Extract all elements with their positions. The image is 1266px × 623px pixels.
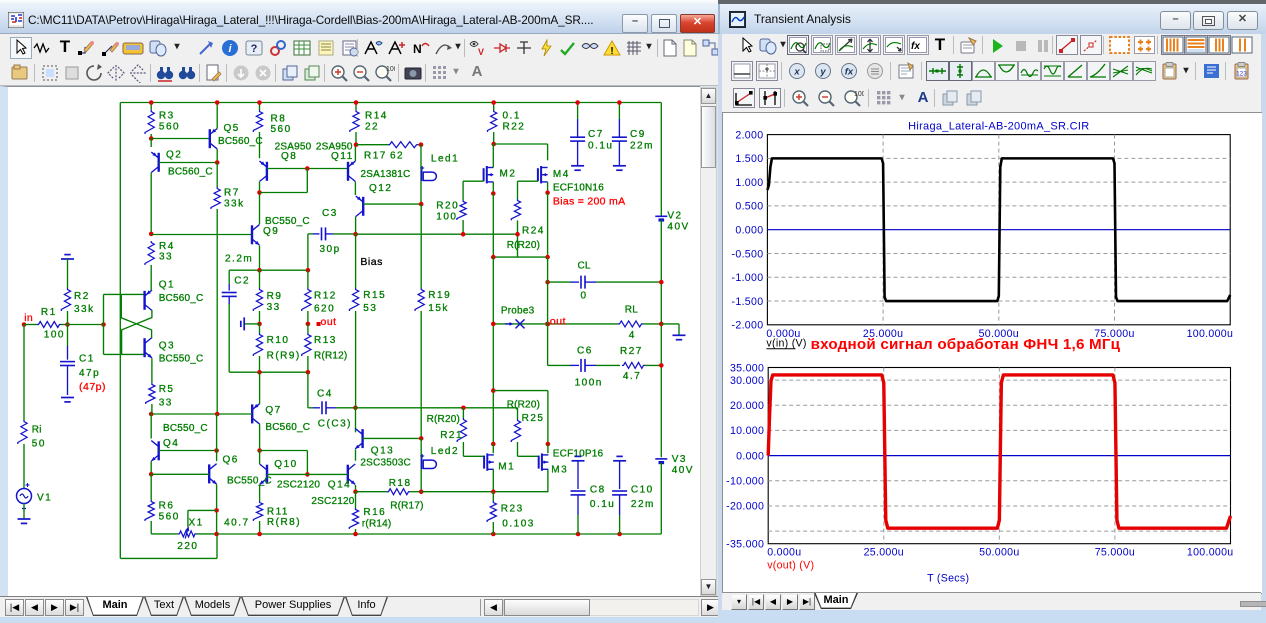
node R3 bottom [149, 136, 154, 141]
resistor R23 [492, 491, 494, 500]
node M3 drain [546, 441, 551, 446]
transistor Q9 [251, 225, 253, 244]
svg-text:560: 560 [159, 511, 180, 522]
svg-text:R(R8): R(R8) [267, 516, 301, 527]
svg-text:Probe3: Probe3 [501, 305, 535, 316]
svg-text:R12: R12 [314, 290, 337, 301]
svg-text:in: in [24, 312, 33, 324]
wire Q9 base [151, 233, 252, 235]
resistor R7 [216, 162, 218, 187]
svg-text:RL: RL [625, 304, 638, 315]
wire left feedback rail [119, 102, 121, 558]
ground below C9 [613, 164, 626, 166]
svg-text:Q14: Q14 [328, 479, 351, 490]
wire bottom return bus [217, 533, 662, 535]
svg-text:R13: R13 [314, 334, 337, 345]
svg-text:0.1: 0.1 [503, 110, 521, 121]
ground below V1 [18, 518, 31, 520]
node CL left [545, 279, 550, 284]
wire X1 wiper [187, 510, 189, 527]
wire Q4 emitter down [150, 461, 152, 474]
svg-text:0.000: 0.000 [735, 225, 763, 237]
svg-text:15k: 15k [428, 303, 449, 314]
ground below C7 [571, 164, 584, 166]
node R17 right [419, 142, 424, 147]
svg-text:R21: R21 [440, 430, 463, 441]
wire Q12 base [363, 203, 421, 205]
svg-text:Q3: Q3 [159, 340, 175, 351]
svg-text:BC560_C: BC560_C [218, 135, 263, 146]
svg-text:V2: V2 [667, 210, 682, 221]
resistor R17 [356, 143, 388, 145]
wire Q10 base [267, 473, 348, 475]
wire V1 to ground [23, 503, 25, 518]
svg-text:T (Secs): T (Secs) [927, 573, 969, 585]
svg-text:-10.000: -10.000 [726, 476, 764, 488]
wire source output rail [421, 490, 548, 492]
svg-text:10.000: 10.000 [730, 425, 764, 437]
svg-text:50.000u: 50.000u [979, 547, 1019, 559]
battery V2 [660, 102, 662, 216]
wire loop up to X1 node [216, 534, 218, 558]
svg-text:C7: C7 [588, 129, 604, 140]
LED Led1 [421, 170, 423, 181]
node R13 bottom [306, 369, 311, 374]
wire M2 gate to R20 [463, 180, 484, 182]
svg-text:V: V [478, 47, 484, 57]
node R14/R17 [354, 142, 359, 147]
svg-text:40V: 40V [672, 464, 694, 475]
resistor RL [618, 320, 643, 326]
svg-text:100: 100 [44, 329, 65, 340]
node out line left [491, 321, 496, 326]
svg-text:Q5: Q5 [224, 122, 240, 133]
wire out line [493, 322, 618, 324]
MOSFET M1 [492, 444, 494, 453]
svg-text:1.000: 1.000 [735, 177, 763, 189]
svg-text:C8: C8 [590, 484, 606, 495]
wire M2/M4 source loop [492, 193, 494, 257]
svg-text:Q1: Q1 [159, 279, 175, 290]
svg-text:C4: C4 [317, 388, 333, 399]
resistor R14 [355, 102, 357, 110]
node R21 top [461, 405, 466, 410]
node M-source rail link [491, 388, 496, 393]
svg-text:R14: R14 [365, 110, 388, 121]
capacitor C3 [307, 233, 309, 269]
wire Q9 collector up [259, 192, 261, 224]
wire M1 source down [492, 469, 494, 492]
svg-text:2SC2120: 2SC2120 [311, 496, 354, 507]
node Q4E/Q6 base/R6 [149, 472, 154, 477]
wire M2 drain [492, 144, 494, 168]
node bias net left [353, 231, 358, 236]
svg-text:(47p): (47p) [79, 381, 106, 393]
svg-text:75.000u: 75.000u [1095, 547, 1135, 559]
svg-text:0.103: 0.103 [502, 518, 535, 529]
svg-text:out: out [321, 316, 337, 328]
ground at R9/R10 [244, 322, 259, 324]
node Q7/Q10 collectors [257, 448, 262, 453]
svg-text:33k: 33k [74, 304, 95, 315]
resistor R1 [24, 323, 37, 325]
svg-text:R1: R1 [41, 307, 57, 318]
capacitor C8 [572, 459, 585, 461]
svg-text:R(R20): R(R20) [507, 240, 540, 251]
svg-text:R22: R22 [503, 121, 526, 132]
svg-text:Led2: Led2 [431, 445, 459, 456]
wire Q6 collector rail [216, 414, 218, 461]
node Q4 base / Q6 collector rail [214, 448, 219, 453]
node R5 bottom [149, 411, 154, 416]
resistor R5 [146, 383, 155, 404]
node loop right [545, 254, 550, 259]
svg-text:47p: 47p [79, 367, 100, 378]
transistor Q11 [347, 161, 349, 180]
plot client area [722, 112, 1262, 594]
svg-text:40.7: 40.7 [224, 517, 249, 528]
node R27 right [659, 363, 664, 368]
svg-text:V3: V3 [672, 454, 687, 465]
svg-text:BC550_C: BC550_C [163, 423, 208, 434]
top frame edge [0, 0, 1266, 3]
capacitor C6 [548, 364, 570, 366]
node X1 right / bottom bus [214, 531, 219, 536]
svg-text:R9: R9 [267, 291, 283, 302]
svg-text:560: 560 [271, 124, 292, 135]
svg-text:R19: R19 [428, 290, 451, 301]
wire Q7 collector to Q10 base [260, 449, 308, 451]
wire R21 to M1 gate [463, 455, 484, 457]
wire Q3 emitter to R5 [151, 358, 153, 383]
capacitor CL [548, 281, 570, 283]
svg-text:BC550_C: BC550_C [227, 475, 272, 486]
wire collector-base tie of Q8 [260, 191, 308, 193]
node M1 drain [491, 441, 496, 446]
node bias/R24 [515, 231, 520, 236]
svg-text:v(in) (V): v(in) (V) [766, 338, 806, 350]
transistor Q5 [209, 129, 211, 148]
resistor R6 [150, 474, 152, 500]
node C10 bottom [617, 531, 622, 536]
svg-text:0: 0 [581, 290, 588, 301]
svg-text:-1.500: -1.500 [732, 296, 764, 308]
wire Q7 emitter up [259, 372, 261, 404]
svg-text:R25: R25 [522, 412, 545, 423]
node Q10 base [305, 472, 310, 477]
wire R22 to M4 drain [494, 143, 548, 145]
svg-text:25.000u: 25.000u [864, 547, 904, 559]
transistor Q13 [355, 407, 357, 432]
wire R4 to Q1 emitter [150, 282, 152, 290]
resistor R20 [457, 200, 466, 220]
node R9/R10 junction [257, 321, 262, 326]
wire bias net [356, 233, 518, 235]
svg-text:R5: R5 [159, 383, 175, 394]
svg-text:ECF10P16: ECF10P16 [553, 448, 604, 459]
capacitor C2 [229, 269, 259, 271]
svg-text:Bias: Bias [360, 255, 382, 267]
wire Q7 collector down [259, 424, 261, 450]
node M2 source [491, 191, 496, 196]
svg-text:Q9: Q9 [263, 225, 279, 236]
node M4 source [545, 190, 550, 195]
title bar [0, 6, 718, 34]
svg-text:53: 53 [363, 303, 377, 314]
wire Q6 emitter down [216, 484, 218, 534]
wire M3 source down [547, 469, 549, 492]
svg-text:40V: 40V [667, 221, 689, 232]
svg-text:20.000: 20.000 [730, 400, 764, 412]
svg-text:R17: R17 [364, 150, 387, 161]
tab bar [0, 596, 718, 618]
capacitor C10 [613, 459, 626, 461]
node R23 bottom [491, 531, 496, 536]
svg-text:220: 220 [177, 541, 198, 552]
svg-text:33: 33 [159, 397, 173, 408]
wire top of R9/R12 [260, 269, 308, 271]
svg-text:Q8: Q8 [281, 150, 297, 161]
wire Q12 collector down [355, 216, 357, 234]
svg-text:Q2: Q2 [166, 149, 182, 160]
svg-text:BC560_C: BC560_C [159, 292, 204, 303]
svg-text:2SA1381C: 2SA1381C [361, 169, 411, 180]
svg-text:N: N [413, 42, 422, 56]
svg-text:R24: R24 [522, 225, 545, 236]
wire M2 source rail down [492, 257, 494, 444]
svg-text:Q7: Q7 [265, 405, 281, 416]
svg-text:C9: C9 [630, 129, 646, 140]
svg-text:?: ? [251, 43, 258, 55]
wire Q2 collector down [150, 172, 152, 233]
transistor Q1 [143, 290, 145, 309]
wire M2 source [492, 181, 494, 193]
svg-text:C10: C10 [631, 484, 654, 495]
wire bias rail to output node [420, 438, 422, 491]
resistor R9 [253, 288, 262, 311]
svg-text:BC560_C: BC560_C [168, 166, 213, 177]
source V1 [17, 488, 32, 503]
svg-text:Bias = 200 mA: Bias = 200 mA [553, 195, 625, 207]
svg-text:v(out) (V): v(out) (V) [767, 560, 814, 572]
wire cross-couple 1 [122, 310, 152, 354]
svg-text:Led1: Led1 [431, 153, 459, 164]
svg-text:Q12: Q12 [369, 183, 392, 194]
wire R3 to Q5 base [151, 137, 210, 139]
svg-text:620: 620 [314, 303, 335, 314]
node R10 bottom [257, 369, 262, 374]
LED Led2 [421, 458, 423, 469]
wire to C4 [307, 372, 309, 408]
transistor Q4 [150, 414, 152, 439]
wire source rail link [493, 389, 548, 391]
svg-text:100.000u: 100.000u [1187, 328, 1234, 340]
svg-text:100.000u: 100.000u [1187, 547, 1234, 559]
wire Q9 emitter down [259, 245, 261, 270]
svg-text:0.1u: 0.1u [588, 140, 613, 151]
resistor R3 [150, 102, 152, 110]
svg-text:30.000: 30.000 [730, 375, 764, 387]
wire Q10 emitter down [259, 484, 261, 500]
resistor R4 [145, 241, 154, 265]
transistor Q10 [266, 464, 268, 483]
resistor R15 [355, 234, 357, 288]
wire Q11 emitter up [354, 144, 356, 160]
node R22 bottom / M2 drain [491, 141, 496, 146]
svg-text:22m: 22m [631, 498, 655, 509]
resistor R27 [622, 362, 645, 368]
svg-text:0.1u: 0.1u [590, 498, 615, 509]
svg-text:R27: R27 [620, 345, 643, 356]
resistor R2 [67, 259, 69, 288]
svg-text:C(C3): C(C3) [318, 418, 352, 429]
svg-text:R11: R11 [267, 506, 289, 517]
label out (feedback) [317, 322, 321, 326]
resistor R22 [493, 102, 495, 110]
svg-text:входной сигнал обработан ФНЧ 1: входной сигнал обработан ФНЧ 1,6 МГц [811, 336, 1121, 353]
node RL right [659, 321, 664, 326]
wire bias spreader vertical [420, 204, 422, 288]
svg-text:R8: R8 [271, 113, 287, 124]
svg-text:R16: R16 [363, 507, 386, 518]
svg-text:M2: M2 [500, 168, 517, 179]
wire Q13 emitter to Q14 collector [355, 449, 357, 460]
MOSFET M3 [547, 444, 549, 453]
svg-text:r(R14): r(R14) [362, 518, 392, 529]
node R18 left [353, 489, 358, 494]
wire Q5 collector down [216, 148, 218, 162]
svg-text:C2: C2 [234, 275, 250, 286]
node M1 source [491, 489, 496, 494]
resistor R12 [302, 288, 311, 311]
wire top supply bus [120, 101, 661, 103]
resistor R16 [355, 491, 357, 507]
wire Q4 base [159, 449, 217, 451]
svg-text:R18: R18 [389, 478, 412, 489]
wire Q3 base [104, 353, 145, 355]
svg-text:R6: R6 [159, 500, 175, 511]
wire X vertical [103, 294, 105, 354]
wire Q1 base [104, 293, 145, 295]
wire Q2 base to Q5 collector node [159, 161, 218, 163]
transistor Q12 [362, 196, 364, 215]
node out/M4 rail [545, 321, 550, 326]
svg-text:R(R12): R(R12) [314, 350, 347, 361]
svg-text:33k: 33k [224, 198, 245, 209]
transistor Q8 [266, 161, 268, 180]
svg-text:R23: R23 [501, 503, 524, 514]
svg-text:-1.000: -1.000 [732, 272, 764, 284]
wire Q6 base [151, 473, 209, 475]
node R18 right / source rail left [419, 489, 424, 494]
resistor R11 [253, 501, 262, 521]
resistor R18 [356, 490, 388, 492]
capacitor C7 [577, 102, 579, 119]
svg-text:out: out [550, 315, 566, 327]
node R16 bottom [353, 531, 358, 536]
transistor Q7 [251, 404, 253, 423]
svg-text:V1: V1 [37, 492, 52, 503]
node R20 bottom [461, 231, 466, 236]
svg-text:Q10: Q10 [274, 458, 297, 469]
svg-text:4.7: 4.7 [623, 371, 641, 382]
svg-text:Q6: Q6 [223, 454, 239, 465]
svg-text:0.500: 0.500 [735, 201, 763, 213]
wire to Led1 [420, 144, 422, 203]
svg-text:35.000: 35.000 [730, 362, 764, 374]
node R11 bottom [257, 531, 262, 536]
resistor R21 [462, 407, 464, 417]
node R1 right / R2 / C1 [65, 322, 70, 327]
svg-text:X1: X1 [189, 517, 204, 528]
svg-text:1.500: 1.500 [735, 153, 763, 165]
node loop left [491, 254, 496, 259]
resistor R8 [259, 102, 261, 110]
battery V3 [655, 457, 667, 459]
svg-text:-0.500: -0.500 [732, 248, 764, 260]
svg-text:C3: C3 [322, 208, 338, 219]
svg-text:R20: R20 [436, 200, 459, 211]
svg-text:Q4: Q4 [163, 438, 179, 449]
resistor R19 [420, 287, 422, 289]
ground below C1 [61, 396, 74, 398]
MOSFET M4 [537, 168, 539, 181]
svg-text:R10: R10 [267, 334, 290, 345]
node out feedback [306, 321, 311, 326]
svg-text:22m: 22m [630, 140, 654, 151]
svg-text:C6: C6 [577, 345, 593, 356]
probe Probe3 [505, 322, 511, 324]
node CL right [659, 279, 664, 284]
svg-text:2SC3503C: 2SC3503C [360, 457, 411, 468]
node input X junction [101, 322, 106, 327]
svg-text:22: 22 [365, 121, 379, 132]
capacitor C1 [67, 324, 69, 346]
svg-text:R(R9): R(R9) [267, 350, 301, 361]
wire bottom-left loop [120, 557, 217, 559]
svg-text:C1: C1 [79, 353, 95, 364]
wire Q13 base [363, 437, 422, 439]
wire Q8 base to Q11 base [267, 167, 348, 169]
capacitor C9 [618, 102, 620, 119]
canvas [0, 86, 700, 596]
wire M4 source [547, 181, 549, 192]
vertical scrollbar [700, 87, 717, 596]
node R12 top [306, 267, 311, 272]
resistor R24 [511, 199, 520, 220]
svg-text:2SC2120: 2SC2120 [277, 479, 320, 490]
svg-text:BC560_C: BC560_C [265, 421, 310, 432]
svg-text:M4: M4 [553, 168, 570, 179]
svg-text:R15: R15 [363, 290, 386, 301]
wire Q5 emitter to bus [216, 102, 218, 128]
wire M4 source rail down [547, 257, 549, 365]
ground above R2 [61, 258, 74, 260]
wire V1 chain [23, 324, 25, 420]
wire C4 node to R21/R25 [356, 406, 518, 408]
wire to input X node [68, 323, 104, 325]
svg-text:560: 560 [159, 121, 180, 132]
wire cross-couple 2 [121, 294, 151, 338]
node Q12 base / Led1 [419, 201, 424, 206]
svg-text:R(R17): R(R17) [390, 500, 423, 511]
svg-text:100: 100 [436, 211, 457, 222]
resistor R25 [511, 419, 520, 442]
svg-text:!: ! [610, 46, 613, 57]
svg-text:100: 100 [386, 66, 395, 73]
svg-text:Q11: Q11 [331, 150, 354, 161]
transistor Q2 [150, 138, 152, 147]
